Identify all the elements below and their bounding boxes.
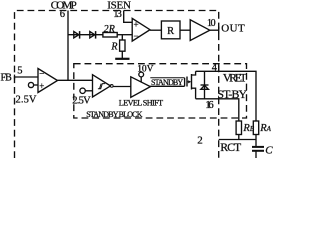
svg-text:5: 5 [17,65,22,76]
svg-text:10: 10 [207,18,216,29]
svg-text:16: 16 [205,99,214,111]
svg-text:6: 6 [60,9,65,20]
svg-text:2R: 2R [104,24,115,35]
svg-text:RCT: RCT [220,140,242,154]
svg-text:2.5V: 2.5V [16,94,37,105]
svg-text:RB: RB [242,123,254,134]
svg-text:2.5V: 2.5V [72,95,91,106]
svg-text:+: + [133,20,138,30]
svg-text:VRET: VRET [223,71,248,85]
svg-text:OUT: OUT [221,22,245,34]
svg-text:STANDBY: STANDBY [151,78,183,87]
svg-text:R: R [167,26,174,37]
svg-text:10V: 10V [137,64,153,74]
svg-text:−: − [39,69,44,79]
svg-text:C: C [265,145,273,157]
svg-text:STANDBY BLOCK: STANDBY BLOCK [86,110,143,119]
svg-text:+: + [39,81,44,91]
svg-text:13: 13 [113,9,122,20]
svg-text:RA: RA [259,123,271,134]
svg-text:−: − [133,31,138,41]
svg-text:LEVEL SHIFT: LEVEL SHIFT [119,99,163,108]
svg-text:4: 4 [212,63,218,74]
svg-text:2: 2 [197,134,203,146]
svg-text:FB: FB [1,72,13,83]
svg-text:ST-BY: ST-BY [217,87,247,101]
svg-text:R: R [110,41,117,52]
